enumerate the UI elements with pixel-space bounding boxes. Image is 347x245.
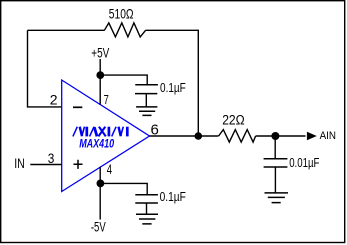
resistor R1 510ohm	[104, 23, 145, 37]
svg-text:7: 7	[104, 92, 109, 107]
wire junction to bypass cap C2	[100, 183, 147, 194]
capacitor C1 0.1uF	[135, 85, 158, 94]
wire cap C1 to ground	[145, 94, 147, 107]
arrow to AIN	[307, 132, 317, 141]
wire AIN node down to cap C3	[274, 136, 276, 159]
svg-text:4: 4	[107, 162, 113, 177]
svg-text:0.1µF: 0.1µF	[160, 80, 186, 95]
svg-text:-5V: -5V	[91, 219, 106, 234]
wire input to pin 3	[30, 164, 61, 166]
wire junction to bypass cap C1	[100, 75, 147, 85]
svg-text:+5V: +5V	[91, 46, 109, 61]
wire output pin 6	[150, 135, 219, 137]
wire +5V down to pin 7	[99, 59, 101, 105]
capacitor C3 0.01uF	[264, 159, 288, 167]
node junction dot at +5V	[96, 71, 104, 79]
node junction dot AIN	[271, 132, 279, 140]
svg-text:510Ω: 510Ω	[109, 7, 134, 22]
ground under C1	[136, 107, 157, 116]
MAXIM logo	[73, 127, 127, 137]
wire cap C3 to ground	[274, 167, 276, 193]
svg-text:AIN: AIN	[320, 130, 336, 142]
svg-text:0.01µF: 0.01µF	[289, 155, 319, 170]
wire cap C2 to ground	[146, 203, 148, 214]
plus input symbol	[74, 160, 83, 169]
wire resistor to AIN node	[256, 135, 306, 137]
svg-text:2: 2	[50, 91, 58, 107]
svg-text:MAX410: MAX410	[79, 138, 114, 151]
ground under C2	[136, 214, 158, 224]
node junction dot at -5V	[97, 180, 105, 188]
ground under C3	[265, 193, 289, 203]
svg-text:IN: IN	[14, 156, 25, 171]
node junction dot feedback/output	[195, 132, 203, 140]
wire pin 4 down to -5V	[99, 167, 101, 220]
op-amp U1 triangle	[62, 80, 150, 192]
svg-text:22Ω: 22Ω	[222, 113, 245, 129]
resistor R2 22ohm	[219, 130, 256, 143]
capacitor C2 0.1uF	[135, 195, 158, 203]
wire feedback top right segment + right vertical down to output node	[146, 30, 199, 136]
svg-text:3: 3	[48, 150, 55, 166]
minus input symbol	[73, 106, 82, 108]
wire feedback top left segment	[28, 29, 105, 31]
wire feedback left vertical + pin2 horizontal	[28, 30, 62, 107]
svg-text:0.1µF: 0.1µF	[160, 189, 186, 204]
